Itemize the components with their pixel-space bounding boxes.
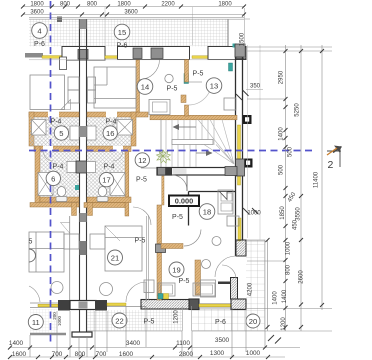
teal fixture kitchen (158, 294, 163, 300)
teal fixture inside right corner (229, 63, 233, 71)
room 12 circle (135, 153, 149, 167)
shower box room 6 (38, 173, 53, 196)
stair landing band (172, 140, 213, 145)
sink room 5 (70, 126, 79, 140)
stair arrow up (174, 126, 196, 128)
door arc bath 5 (49, 117, 60, 128)
wardrobe room 21 (90, 234, 105, 249)
svg-text:1000: 1000 (246, 350, 261, 357)
svg-text:22: 22 (115, 316, 123, 325)
bed left bedroom top (30, 75, 65, 110)
extension line x105 (104, 7, 106, 46)
svg-text:P-4: P-4 (51, 119, 62, 126)
yellow fixture kitchen (164, 294, 169, 300)
corridor south tan wall w/ bullnose (161, 244, 183, 249)
east wall upper double line (236, 45, 243, 256)
room 15 circle (114, 24, 130, 40)
fireplace corner symbol (220, 192, 228, 200)
planter wall terrace divider (183, 306, 192, 331)
terrace 20 edges (192, 240, 265, 331)
bath south band right / room21 north (87, 197, 131, 203)
right dim chain lines (286, 45, 323, 331)
section marker 2 right (327, 151, 341, 167)
svg-text:11: 11 (32, 318, 40, 327)
terrace room 15/4 top (29, 19, 228, 47)
svg-text:6: 6 (51, 174, 55, 183)
bath16 east wall (131, 112, 136, 146)
svg-text:12: 12 (138, 156, 146, 165)
bath band 2 left (34, 146, 79, 152)
svg-text:500: 500 (279, 164, 285, 175)
left unit table circle (51, 282, 63, 294)
svg-text:2950: 2950 (279, 70, 285, 84)
svg-text:1200: 1200 (281, 317, 287, 331)
teal fixture room13 (184, 74, 189, 84)
south wall party block (70, 301, 96, 310)
svg-text:2: 2 (328, 159, 334, 171)
toilet room 6 (57, 187, 66, 197)
svg-text:21: 21 (111, 253, 119, 262)
svg-text:5: 5 (29, 239, 33, 246)
svg-text:P-5: P-5 (167, 86, 178, 93)
svg-text:1800: 1800 (218, 2, 232, 8)
door gap in stairs south wall (173, 169, 187, 174)
small circle living east (212, 237, 221, 246)
extension lines bottom (30, 306, 265, 357)
svg-text:1000: 1000 (247, 211, 261, 217)
door arc room 21 to terrace (126, 282, 146, 302)
svg-text:P-6: P-6 (117, 43, 128, 50)
svg-text:500: 500 (288, 146, 294, 157)
tick marks bottom rows (8, 346, 270, 360)
svg-text:1600: 1600 (12, 351, 27, 358)
living room west corner lines (189, 192, 237, 226)
corridor wall thin jamb (162, 176, 164, 205)
svg-text:3400: 3400 (126, 340, 141, 347)
window top yellow 3 / entry door (192, 56, 208, 59)
party wall flue blocks (80, 19, 87, 29)
south pier dark 2 (95, 300, 107, 311)
shower box room 16 (117, 120, 133, 136)
bed room 14 (94, 67, 136, 108)
svg-text:1400: 1400 (282, 289, 288, 303)
room 11 circle (28, 315, 43, 330)
fireplace east wall (218, 190, 233, 214)
svg-text:18: 18 (203, 207, 211, 216)
svg-text:14: 14 (141, 82, 149, 91)
party wall top block (62, 47, 105, 61)
svg-text:P-4: P-4 (53, 164, 64, 171)
svg-text:1400: 1400 (273, 291, 279, 305)
bath5 west wall (29, 112, 34, 146)
tick marks right chains (236, 49, 324, 344)
bath 16 floor (87, 117, 131, 146)
top wall inner face line (29, 59, 235, 61)
top wall left dark band (25, 53, 43, 58)
kitchen east wall tan (195, 260, 201, 295)
window top yellow 2 (105, 56, 118, 59)
room 17 circle (99, 172, 113, 186)
teal fixture bathroom (75, 185, 79, 190)
svg-text:1000: 1000 (286, 241, 292, 255)
svg-text:1600: 1600 (119, 351, 134, 358)
top dim texts row1 (30, 2, 232, 16)
south wall left thin segment (30, 303, 58, 308)
tan flank left of party wall (72, 203, 77, 216)
svg-text:700: 700 (52, 351, 63, 358)
left unit wardrobe lower (64, 234, 79, 249)
wardrobe room 14 (88, 77, 96, 90)
svg-text:17: 17 (102, 176, 110, 185)
door arc living to terrace upper (215, 256, 236, 277)
corridor/kitchen wall vertical tan (157, 205, 162, 300)
svg-text:800: 800 (286, 264, 292, 275)
stairs south wall dark (141, 167, 157, 169)
wardrobe left top (68, 77, 79, 90)
room13 west wall lower tan (185, 105, 189, 116)
window top-left yellow (42, 56, 66, 59)
svg-text:5250: 5250 (295, 103, 301, 117)
svg-text:1300: 1300 (210, 350, 225, 357)
toilet room 17 (98, 187, 107, 197)
window south-left yellow (38, 304, 58, 306)
svg-text:0.000: 0.000 (175, 197, 194, 206)
svg-text:15: 15 (118, 28, 126, 37)
svg-text:1100: 1100 (176, 340, 190, 347)
svg-text:1800: 1800 (30, 2, 44, 8)
svg-text:800: 800 (60, 2, 71, 8)
terrace 22 bottom edge (87, 330, 182, 332)
svg-text:2600: 2600 (299, 270, 305, 284)
bath 5 floor (30, 117, 79, 146)
door arc room 14 (140, 60, 160, 80)
room13 west wall upper tan (185, 60, 189, 83)
east wall window yellow (stairs) (238, 125, 241, 185)
south corner pier hatched (189, 299, 199, 310)
extension line from top corner (244, 8, 246, 59)
wall bedroom/bath band left (29, 112, 79, 117)
level box 0.000 (169, 196, 199, 207)
svg-text:5: 5 (59, 129, 63, 138)
east wall door step (218, 282, 231, 285)
east wall pier hatched (236, 240, 246, 256)
stair winder diagonals (198, 120, 234, 165)
bath south band left (40, 197, 79, 202)
closet diag room 21 (105, 226, 120, 241)
terrace 11 south edge thick (30, 333, 66, 336)
shoe cabinet room 12 (149, 100, 170, 115)
svg-text:800: 800 (87, 2, 98, 8)
room13 door header (189, 81, 203, 83)
room 20 circle (246, 314, 260, 328)
SE corner pier hatched (231, 299, 246, 310)
left unit lower bed (29, 232, 64, 272)
south pier dark 1 (58, 300, 70, 311)
svg-text:16: 16 (106, 129, 114, 138)
cabinet room 13 (224, 98, 236, 110)
svg-text:P-4: P-4 (104, 164, 115, 171)
svg-text:1800: 1800 (117, 2, 131, 8)
svg-text:P-5: P-5 (136, 177, 147, 184)
svg-text:19: 19 (172, 265, 180, 274)
svg-text:P-4: P-4 (106, 119, 117, 126)
room 13 circle (206, 78, 222, 94)
kitchen counter room 19 (158, 283, 175, 296)
room13 door arc (189, 82, 212, 105)
svg-text:P-5: P-5 (172, 214, 183, 221)
room 16 circle (103, 126, 117, 140)
section line vertical (50, 1, 52, 345)
svg-text:P-5: P-5 (193, 71, 204, 78)
svg-text:P-5: P-5 (144, 319, 155, 326)
east wall top corner gray (235, 44, 245, 57)
door arc living lower (222, 265, 236, 279)
window south living yellow (199, 304, 231, 307)
window/door south yellow 2 (107, 303, 126, 306)
door gap band left covered (48, 111, 59, 118)
svg-text:350: 350 (250, 84, 261, 90)
svg-text:3600: 3600 (30, 10, 44, 16)
svg-text:800: 800 (75, 351, 86, 358)
tan flank right of party wall (88, 203, 93, 216)
kitchen sink unit (144, 280, 154, 293)
stairwell west line (160, 119, 162, 167)
east wall column symbol 1 (243, 115, 252, 124)
dim line terrace right (245, 19, 268, 331)
top wall pier long (118, 47, 190, 60)
terrace 11 bottom-left (30, 309, 57, 334)
east wall gray block (236, 159, 245, 176)
svg-text:1200: 1200 (174, 310, 180, 324)
stair risers (166, 120, 214, 168)
plant green scribble (157, 150, 171, 163)
top wall pier right (208, 47, 246, 60)
tick marks top row1 (21, 5, 246, 17)
extension lines right (246, 47, 332, 331)
room 6 circle (46, 171, 60, 185)
section line horizontal (29, 150, 313, 152)
svg-text:P-6: P-6 (34, 41, 45, 48)
east wall lower hatched (231, 278, 238, 300)
svg-text:4200: 4200 (248, 282, 254, 296)
terrace edge post (57, 17, 62, 23)
table circle room 21 (100, 283, 113, 296)
svg-text:1000: 1000 (57, 315, 62, 326)
dark box on party wall bathrooms (76, 161, 87, 173)
south wall hatched segment (141, 300, 190, 310)
svg-text:13: 13 (210, 82, 218, 91)
room 18 circle (199, 204, 215, 220)
extension line x192 (192, 7, 194, 45)
svg-text:2800: 2800 (179, 351, 194, 358)
bedroom14 east wall tan (136, 60, 140, 112)
door arc hall to living (184, 230, 201, 247)
wall bedroom/bath band right (87, 112, 148, 117)
svg-text:3500: 3500 (215, 337, 230, 344)
lamp circle hall 12 (165, 74, 173, 82)
svg-text:3550: 3550 (296, 207, 302, 221)
room 5 circle (54, 126, 68, 140)
teal fixture above right corner (233, 44, 237, 48)
shower box room 17 (110, 173, 125, 196)
room 21 circle (108, 250, 123, 265)
bottom dim texts rowA (9, 337, 261, 358)
terrace top edge double line (29, 17, 244, 19)
tan block stair top (181, 95, 186, 103)
svg-text:1400: 1400 (279, 127, 285, 141)
party wall footing T (72, 332, 92, 337)
svg-text:1400: 1400 (9, 340, 24, 347)
terrace 22 bottom (87, 310, 182, 331)
east wall window yellow (living) (238, 218, 241, 241)
door arc from corridor down (172, 175, 187, 190)
right chain rotated texts (52, 32, 320, 331)
terrace 20 bottom band (192, 309, 265, 331)
sofa living room (193, 283, 215, 296)
door arc bath 6 (44, 152, 54, 162)
shower box room 5 (32, 120, 47, 136)
bath 6 floor (40, 152, 79, 198)
bed room 21 (105, 226, 142, 271)
terrace 20 vertical strip (246, 240, 265, 309)
top dim lines (23, 7, 245, 15)
bath17 east wall / corridor west (125, 151, 129, 216)
svg-text:P-5: P-5 (135, 238, 146, 245)
armchair living (201, 280, 216, 297)
pilaster left of party wall top (60, 57, 67, 70)
room 19 circle (169, 262, 184, 277)
svg-text:1500: 1500 (240, 32, 246, 46)
dim line under 350 (246, 89, 263, 91)
bath band 2 right (87, 146, 131, 152)
washbasin left of party wall (67, 162, 76, 173)
left bedroom cut circle (29, 249, 36, 262)
room 22 circle (112, 313, 127, 328)
svg-text:P-5: P-5 (179, 278, 190, 285)
svg-text:20: 20 (249, 317, 257, 326)
door arc bath 17 (113, 152, 123, 162)
bath6 west wall (35, 146, 40, 203)
door arc bath 16 (106, 117, 117, 128)
sink room 16 (87, 126, 96, 140)
left unit door arc (29, 286, 40, 302)
door arc room21 entry (133, 207, 151, 225)
bath 17 floor (87, 152, 125, 198)
svg-text:700: 700 (96, 351, 107, 358)
stair arrow down (196, 152, 212, 154)
room 4 circle (32, 23, 48, 39)
svg-text:2200: 2200 (161, 2, 175, 8)
svg-text:11400: 11400 (314, 171, 320, 188)
svg-text:3600: 3600 (124, 10, 138, 16)
svg-text:4: 4 (37, 26, 41, 35)
svg-text:P-6: P-6 (215, 319, 226, 326)
terrace right edge line (227, 19, 229, 46)
stairs north wall band (150, 115, 237, 120)
round table living (202, 260, 211, 269)
east wall column symbol 2 (244, 159, 253, 168)
room 14 circle (137, 79, 153, 95)
svg-text:1850: 1850 (280, 206, 286, 220)
washbasin right of party wall (87, 162, 96, 173)
bottom dim lines (10, 348, 300, 358)
eaves lines right (248, 45, 261, 240)
